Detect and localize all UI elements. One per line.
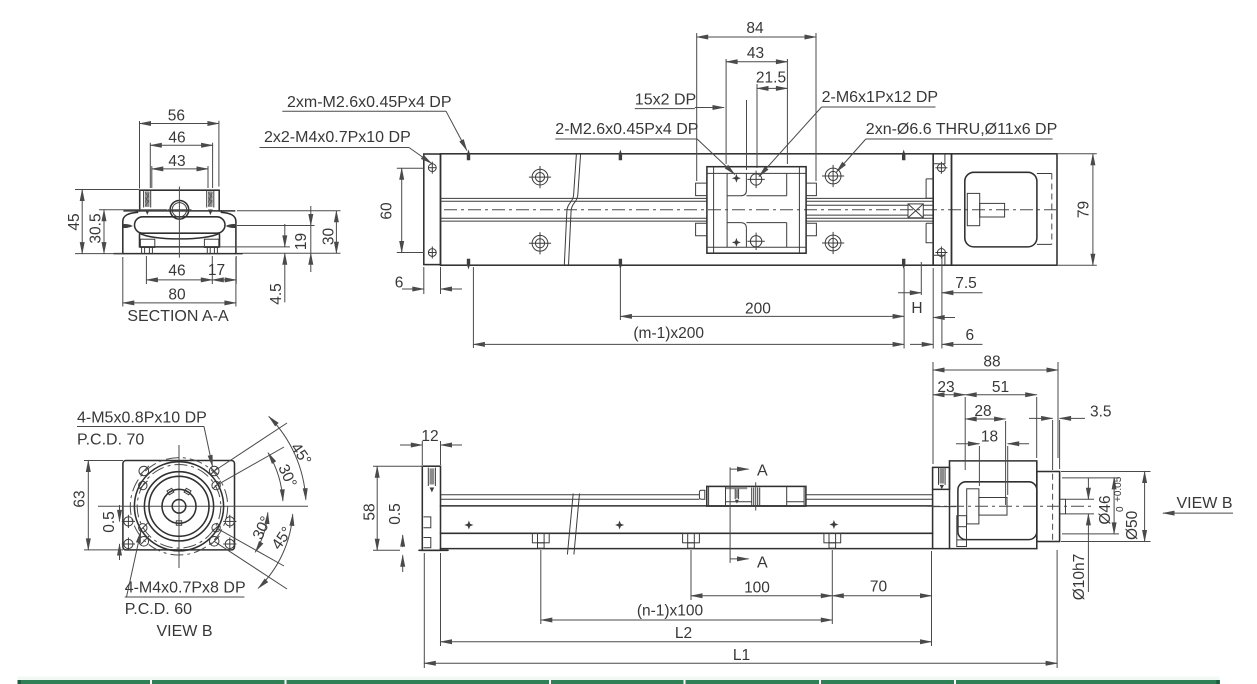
right foot boss [204,239,218,247]
dim 3.5 [1053,420,1060,470]
svg-text:58: 58 [362,503,379,520]
dim 88 [933,362,1058,464]
svg-text:43: 43 [168,153,185,170]
svg-text:H: H [911,300,922,317]
dim 17 [235,256,237,284]
svg-text:A: A [757,463,768,480]
adapter corner blocks [933,154,945,265]
dim 21.5 [756,84,758,168]
bearing crossed square [908,204,923,218]
dim 43 [152,166,208,188]
svg-text:70: 70 [870,579,888,596]
dim 84 [697,33,816,181]
flange ears outline [123,211,236,254]
end plate [424,154,441,265]
svg-text:2-M2.6x0.45Px4 DP: 2-M2.6x0.45Px4 DP [555,121,698,138]
svg-text:2xn-Ø6.6 THRU,Ø11x6 DP: 2xn-Ø6.6 THRU,Ø11x6 DP [866,121,1057,138]
dim H [933,317,955,319]
bolt hole 2 [529,232,551,254]
dim (m-1)x200 [472,267,474,348]
body star 1 [464,521,473,530]
omega rail-clamp stadium [135,217,226,233]
svg-text:0.5: 0.5 [387,503,404,525]
body star 3 [829,520,838,529]
M5 hole BL [139,536,149,546]
dim 70 [832,595,931,597]
svg-text:3.5: 3.5 [1090,404,1112,421]
dim 23 [964,397,966,470]
circle outer [134,462,223,551]
M6 hole top [747,171,764,188]
dim 28 [1005,421,1007,505]
svg-text:88: 88 [983,354,1000,371]
body star 2 [615,521,624,530]
svg-text:0.5: 0.5 [101,511,118,533]
corner hole 3 [223,515,236,528]
carriage screw side [735,489,738,499]
PCD60 dash circle [137,465,221,549]
radial line M4 BR [216,528,284,566]
motor box [952,154,1058,265]
table header cells [18,680,151,684]
svg-text:60: 60 [379,202,396,220]
carriage side body [707,486,806,506]
M6 hole bottom [747,233,764,250]
svg-text:79: 79 [1076,201,1093,218]
dim 45 [75,190,139,254]
rail lines right [806,198,933,221]
svg-text:P.C.D. 60: P.C.D. 60 [125,601,192,618]
plate screw [428,468,435,486]
radial line M5 TR [214,423,287,471]
dim 6 right [910,343,933,345]
dim O50 [1061,472,1151,542]
M4 hole BL [139,523,148,532]
rail lines left [441,198,707,221]
M4 hole BR [212,523,221,532]
body top line [441,505,933,507]
edge tick marks top [467,150,906,161]
dim 60 [397,168,424,252]
dim 30 [335,211,337,253]
body end line [932,467,934,548]
carriage top block outline [140,190,220,211]
corner hole 2 [122,537,135,550]
section arrow bottom [730,558,748,560]
svg-text:21.5: 21.5 [756,70,786,87]
dim O10h7 [1066,499,1094,514]
svg-text:2xm-M2.6x0.45Px4 DP: 2xm-M2.6x0.45Px4 DP [287,94,452,111]
spacer screw [939,467,946,485]
plate squares [424,517,431,548]
dim 0.5 viewb [119,505,121,521]
ext line slot center [237,225,315,227]
dim 58 [373,466,423,550]
svg-text:23: 23 [937,379,954,396]
bore circle [172,500,186,514]
dim 43 top [726,59,787,164]
carriage M6 hidden lines [752,488,760,506]
circle pilot [144,472,213,541]
table end borders [18,680,22,684]
svg-text:19: 19 [293,233,310,250]
body outline [441,154,934,265]
M4 hole TR [212,481,221,490]
pulley column [957,516,967,547]
screw shaft right [806,205,933,215]
carriage window edges [727,191,787,229]
section arrow top [730,468,748,470]
crosshair vertical [178,445,180,568]
bolt hole 3 [822,165,844,187]
base bottom line [441,548,1037,550]
dim 19 [310,226,312,254]
angle arc 45 upper [269,417,306,500]
rail lines side [441,495,933,499]
adapter hole top [935,162,947,174]
motor centerline [927,505,1092,507]
dim 46 top [150,143,212,188]
dim (n-1)x100 [541,619,833,621]
ball nut bore circle [170,201,189,220]
right stems [207,248,217,254]
carriage cap lines [727,173,787,247]
svg-text:Ø46: Ø46 [1097,495,1114,524]
svg-text:45: 45 [66,213,83,230]
carriage groove strip [726,487,747,489]
carriage side inner lines [709,486,805,506]
table header light row [18,677,1220,681]
dim 0.5 side [402,535,404,547]
adapter plate [933,154,951,265]
M5 hole TR crossed [209,466,219,476]
svg-text:46: 46 [168,129,185,146]
adapter tabs [926,179,933,243]
dim 100 [691,595,832,597]
left screw M4 [144,190,151,207]
foot 1 [532,533,549,548]
set screw star top [732,174,741,183]
ext line lower block bottom right [220,246,291,248]
rail clamp tabs [696,183,817,236]
svg-text:28: 28 [974,403,991,420]
carriage bump [699,490,704,499]
dim 51 [1036,397,1038,458]
svg-text:L2: L2 [675,625,692,642]
svg-text:(m-1)x200: (m-1)x200 [633,325,704,342]
svg-text:P.C.D. 70: P.C.D. 70 [77,432,144,449]
svg-text:51: 51 [992,379,1009,396]
svg-text:30.5: 30.5 [88,213,105,243]
bolt hole 1 [529,166,551,188]
dim L1 [424,662,1057,664]
end plate side [422,466,440,550]
svg-text:Ø10h7: Ø10h7 [1071,554,1088,601]
svg-text:2x2-M4x0.7Px10 DP: 2x2-M4x0.7Px10 DP [264,129,411,146]
spacer block [933,467,950,489]
dim 18 [979,446,1007,495]
corner hole 1 [122,515,135,528]
dim 6 left [424,267,441,294]
motor bracket [950,461,1037,549]
right T-slot (filled) [226,224,236,228]
left foot boss [140,239,154,247]
clamp concave bottom arc [140,233,220,239]
svg-text:43: 43 [747,45,764,62]
angle arc 30 upper [268,453,283,501]
svg-text:L1: L1 [733,647,750,664]
dim 200 [619,267,621,320]
M4 hole TL [139,481,148,490]
motor body rounded [965,172,1037,247]
dim O46 [1062,478,1119,534]
angle arc 45 lower [258,514,293,588]
dim 80 [123,257,236,307]
svg-text:(n-1)x100: (n-1)x100 [637,603,704,620]
bolt hole 4 [822,232,844,254]
svg-text:17: 17 [208,262,225,279]
spacer mid line [933,506,956,508]
svg-text:A: A [757,555,768,572]
side break lines [567,494,579,555]
section line A-A [729,467,731,563]
VIEWB_GROUP [72,410,315,641]
keyway notches [167,488,191,525]
carriage inner frame [707,167,806,254]
dim L2 [441,641,932,643]
dim 12 [422,441,440,465]
base bottom line [114,253,242,255]
coupling hub [967,193,979,225]
svg-text:SECTION A-A: SECTION A-A [127,308,229,325]
dim 63 [84,461,123,550]
svg-text:18: 18 [981,429,998,446]
svg-text:46: 46 [168,263,185,280]
flange side [1037,472,1060,542]
coupling shaft [980,203,1005,217]
shaft stub [1060,499,1066,514]
svg-text:30: 30 [321,228,338,246]
adapter hole bottom [935,247,947,259]
edge tick marks bottom [467,259,906,270]
motor face dashed [1051,174,1053,245]
dim 56 [140,121,219,189]
plate hole top [428,162,436,174]
TOPVIEW_GROUP [260,20,1097,349]
set screw star bottom [732,238,741,247]
M5 hole TL [139,466,149,476]
svg-text:6: 6 [965,327,974,344]
svg-text:63: 63 [72,490,89,507]
foot 2 [683,533,700,548]
svg-text:7.5: 7.5 [955,275,977,292]
svg-text:12: 12 [421,428,438,445]
flange hidden line [1052,474,1054,540]
ext line baseline right [242,252,341,254]
svg-text:15x2 DP: 15x2 DP [635,92,696,109]
carriage outline [707,167,806,254]
coupling shaft side [979,498,1007,516]
svg-text:Ø50: Ø50 [1124,510,1141,540]
flange plate [123,461,235,550]
svg-text:80: 80 [168,287,186,304]
radial line M4 TR [216,447,284,486]
M5 hole BR [209,536,219,546]
svg-text:+0.05: +0.05 [1113,476,1124,502]
angle arc 30 lower [255,513,267,553]
SECTION_AA_GROUP [66,108,341,325]
motor silhouette [958,482,1037,540]
circle inner [149,476,209,536]
corner hole 4 [223,537,236,550]
dim 7.5 [898,292,921,294]
GREENBAND_GROUP [18,677,1220,684]
svg-text:VIEW B: VIEW B [156,623,212,640]
break lines [564,154,580,265]
svg-text:4-M4x0.7Px8 DP: 4-M4x0.7Px8 DP [125,580,246,597]
coupling hub side [967,489,979,524]
left stems [142,248,153,254]
svg-text:0: 0 [1115,506,1126,512]
svg-text:200: 200 [745,301,771,318]
dim 30.5 [99,209,167,211]
PCD70 dash circle [130,458,227,555]
crosshair horizontal [98,505,308,507]
svg-text:4-M5x0.8Px10 DP: 4-M5x0.8Px10 DP [77,410,207,427]
ext line flange top right [237,210,341,212]
body/base line [441,532,933,534]
dim 79 [1058,154,1097,265]
centerline [444,209,1056,211]
flange top line [124,210,235,212]
centerlines of bore [168,209,192,211]
svg-text:2-M6x1Px12 DP: 2-M6x1Px12 DP [822,89,939,106]
svg-text:84: 84 [746,20,764,37]
svg-text:VIEW B: VIEW B [1176,495,1232,512]
lower block sides [140,235,220,247]
motor face lines [1037,174,1052,245]
left T-slot (filled) [123,224,133,228]
right screw M4 [207,190,214,207]
radial line M5 BR [214,541,287,589]
svg-text:6: 6 [395,275,404,292]
svg-text:4.5: 4.5 [268,283,285,305]
bottom ext lines [424,550,1057,668]
plate bottom line [419,549,448,551]
right ext lines [904,256,942,349]
keyed circle [162,489,196,523]
foot 3 [824,533,841,548]
plate hole bottom [428,247,436,259]
dim 4.5 [284,224,286,247]
SIDEVIEW_GROUP [362,354,1234,669]
dim 46 bottom [146,256,212,284]
svg-text:56: 56 [168,108,185,125]
svg-text:100: 100 [744,580,770,597]
